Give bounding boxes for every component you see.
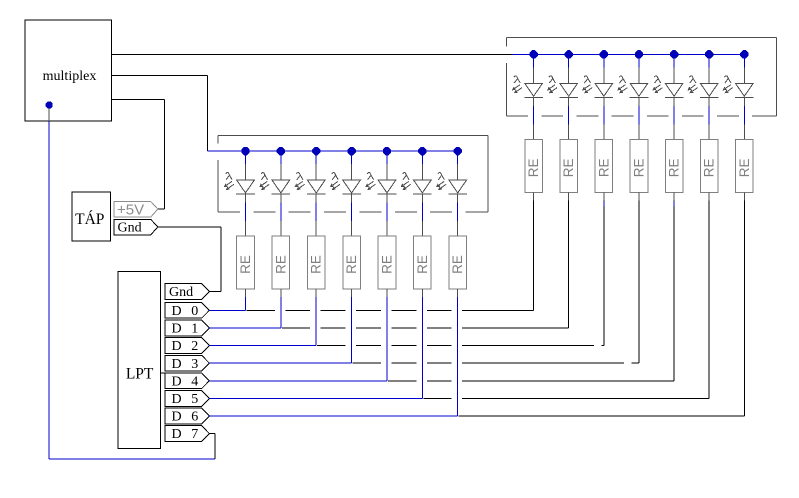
LED D2.6 anode lead xyxy=(743,54,745,67)
LED D2.0 cathode lead xyxy=(533,97,535,106)
svg-text:7: 7 xyxy=(191,427,198,442)
LED D2.5 emission arrows xyxy=(688,85,695,90)
junction node bank2 col1 xyxy=(565,50,573,58)
svg-text:D: D xyxy=(172,410,182,425)
wire multiplex pin to D7 net (vertical blue) xyxy=(48,121,50,459)
LED D2.5 cathode lead xyxy=(708,97,710,106)
LED D1.4 anode lead xyxy=(386,151,388,164)
wire D1 black continuation to bank2 xyxy=(282,327,310,329)
wire D4 blue segment flag to bank1 xyxy=(209,380,387,382)
wire D6 bank1 riser (blue) xyxy=(457,297,459,416)
svg-text:D: D xyxy=(172,357,182,372)
LED D1.2 anode lead xyxy=(315,151,317,164)
wire D1 bank1 riser (blue) xyxy=(280,297,282,328)
LED D1.2 lambda mark xyxy=(296,173,303,180)
svg-text:RE: RE xyxy=(273,255,288,274)
LED D1.5 cathode lead xyxy=(421,194,423,203)
wire D6 blue segment flag to bank1 xyxy=(209,415,457,417)
D 1 flag (LPT) xyxy=(165,320,209,336)
svg-text:3: 3 xyxy=(191,357,198,372)
LED D2.4 cathode lead xyxy=(673,97,675,106)
wire D1 blue segment flag to bank1 xyxy=(209,327,280,329)
LED D1.0 lambda mark xyxy=(226,173,233,180)
svg-text:2: 2 xyxy=(191,339,198,354)
resistor RE (bank 2) xyxy=(665,139,683,192)
LED D1.3 symbol xyxy=(343,180,361,193)
LED D1.1 symbol xyxy=(272,180,290,193)
wire D3 bank2 riser xyxy=(638,201,640,363)
wire multiplex out2 horizontal xyxy=(111,74,207,76)
LED D2.2 emission arrows xyxy=(583,85,590,90)
resistor RE (bank 2) xyxy=(560,139,578,192)
wire multiplex out3 horizontal xyxy=(111,98,164,100)
wire D4 bank2 riser xyxy=(673,201,675,381)
junction node bank1 col5 xyxy=(418,147,426,155)
LED D2.6 lambda mark xyxy=(725,76,732,83)
wire D2 bank1 riser (blue) xyxy=(315,297,317,346)
LED D2.4 lambda mark xyxy=(654,76,661,83)
LED D2.6 symbol xyxy=(736,83,754,96)
junction node bank2 col6 xyxy=(740,50,748,58)
svg-text:RE: RE xyxy=(344,255,359,274)
LED D2.4 emission arrows xyxy=(653,85,660,90)
svg-text:+5V: +5V xyxy=(117,202,144,219)
svg-text:RE: RE xyxy=(561,158,576,177)
LED D2.3 anode lead xyxy=(638,54,640,67)
junction node bank1 col6 xyxy=(454,147,462,155)
svg-text:multiplex: multiplex xyxy=(43,69,97,84)
resistor RE (bank 1) xyxy=(378,236,396,289)
svg-text:D: D xyxy=(172,427,182,442)
LED D1.4 symbol xyxy=(378,180,396,193)
LED D2.2 lambda mark xyxy=(584,76,591,83)
D 5 flag (LPT) xyxy=(165,391,209,407)
LED D2.1 lambda mark xyxy=(549,76,556,83)
resistor RE (bank 2) xyxy=(595,139,613,192)
D 3 flag (LPT) xyxy=(165,355,209,371)
wire D3 blue segment flag to bank1 xyxy=(209,362,351,364)
LED D1.3 lambda mark xyxy=(332,173,339,180)
LED D1.2 cathode lead xyxy=(315,194,317,203)
junction node bank2 col0 xyxy=(529,50,537,58)
resistor RE (bank 1) xyxy=(343,236,361,289)
svg-text:RE: RE xyxy=(238,255,253,274)
resistor RE (bank 2) xyxy=(700,139,718,192)
svg-text:TÁP: TÁP xyxy=(75,211,104,228)
LED D1.6 cathode lead xyxy=(457,194,459,203)
resistor RE (bank 1) xyxy=(414,236,432,289)
wire bottom horizontal D7 net xyxy=(49,458,215,460)
svg-text:5: 5 xyxy=(191,392,198,407)
wire D0 blue segment flag to bank1 xyxy=(209,309,245,311)
wire multiplex pin lead xyxy=(48,108,50,121)
Gnd flag label (TAP) xyxy=(114,219,158,235)
LED D2.6 emission arrows xyxy=(723,85,730,90)
LED bank 2 frame xyxy=(506,37,776,39)
LED D1.6 anode lead xyxy=(457,151,459,164)
LED D1.0 cathode lead xyxy=(245,194,247,203)
wire Gnd TAP to LPT Gnd xyxy=(158,226,221,228)
wire D5 bank2 riser xyxy=(708,201,710,399)
resistor RE (bank 2) xyxy=(630,139,648,192)
D 4 flag (LPT) xyxy=(165,373,209,389)
LED D1.5 emission arrows xyxy=(401,181,408,186)
LED D2.5 anode lead xyxy=(708,54,710,67)
LED D2.1 emission arrows xyxy=(548,85,555,90)
LED D1.4 lambda mark xyxy=(367,173,374,180)
wire D5 blue segment flag to bank1 xyxy=(209,397,422,399)
junction node bank2 col3 xyxy=(635,50,643,58)
LED D1.4 cathode lead xyxy=(386,194,388,203)
resistor RE (bank 1) xyxy=(272,236,290,289)
bank2 bus wire (blue) xyxy=(513,53,745,55)
LED D1.3 cathode lead xyxy=(351,194,353,203)
LED D2.4 anode lead xyxy=(673,54,675,67)
LED D2.3 cathode lead xyxy=(638,97,640,106)
wire D0 black continuation to bank2 xyxy=(247,309,275,311)
LED D2.0 lambda mark xyxy=(514,76,521,83)
wire D5 black continuation to bank2 xyxy=(423,397,451,399)
svg-text:0: 0 xyxy=(191,304,198,319)
junction node bank2 col5 xyxy=(705,50,713,58)
D 0 flag (LPT) xyxy=(165,302,209,318)
LED D1.3 emission arrows xyxy=(331,181,338,186)
svg-text:RE: RE xyxy=(631,158,646,177)
LED D2.6 cathode lead xyxy=(743,97,745,106)
svg-text:D: D xyxy=(172,304,182,319)
svg-text:D: D xyxy=(172,322,182,337)
svg-text:Gnd: Gnd xyxy=(169,285,193,300)
resistor RE (bank 2) xyxy=(525,139,543,192)
LED D2.2 symbol xyxy=(595,83,613,96)
wire D1 bank2 riser xyxy=(568,201,570,328)
LED D2.5 symbol xyxy=(700,83,718,96)
svg-text:Gnd: Gnd xyxy=(118,220,142,235)
svg-text:RE: RE xyxy=(737,158,752,177)
LED D1.1 emission arrows xyxy=(260,181,267,186)
multiplex output pin node (blue dot) xyxy=(46,102,53,109)
svg-text:RE: RE xyxy=(526,158,541,177)
LED D1.6 symbol xyxy=(449,180,467,193)
wire multiplex out2 drop to bank1 bus xyxy=(207,75,209,151)
LED D2.1 symbol xyxy=(560,83,578,96)
junction node bank1 col4 xyxy=(383,147,391,155)
svg-text:RE: RE xyxy=(309,255,324,274)
LED D1.2 emission arrows xyxy=(295,181,302,186)
junction node bank1 col2 xyxy=(312,147,320,155)
wire stub between D3 and D4 flags xyxy=(161,372,192,374)
wire D5 bank1 riser (blue) xyxy=(421,297,423,399)
svg-text:RE: RE xyxy=(379,255,394,274)
bank1 bus wire (blue) xyxy=(208,150,458,152)
svg-text:1: 1 xyxy=(191,322,198,337)
junction node bank1 col1 xyxy=(277,147,285,155)
wire multiplex out3 drop to +5V xyxy=(163,99,165,209)
wire D3 bank1 riser (blue) xyxy=(351,297,353,363)
+5V flag label xyxy=(114,201,158,217)
LED bank 1 frame xyxy=(218,135,488,137)
wire D6 bank2 riser xyxy=(743,201,745,416)
LED D1.1 lambda mark xyxy=(261,173,268,180)
wire D0 bank1 riser (blue) xyxy=(245,297,247,311)
resistor RE (bank 1) xyxy=(237,236,255,289)
LED D2.1 cathode lead xyxy=(568,97,570,106)
LED D1.3 anode lead xyxy=(351,151,353,164)
LED D1.5 symbol xyxy=(414,180,432,193)
LED D2.0 symbol xyxy=(525,83,543,96)
wire multiplex out1 to bank2 bus xyxy=(111,53,512,55)
wire D7 riser xyxy=(214,434,216,460)
svg-text:D: D xyxy=(172,374,182,389)
LPT port box xyxy=(118,271,161,448)
LED D1.6 lambda mark xyxy=(438,173,445,180)
wire D3 black continuation to bank2 xyxy=(353,362,381,364)
TAP power supply box xyxy=(72,192,111,241)
LED D1.0 emission arrows xyxy=(225,181,232,186)
junction node bank1 col0 xyxy=(241,147,249,155)
junction node bank2 col2 xyxy=(600,50,608,58)
Gnd flag (LPT) xyxy=(165,284,209,300)
D 7 flag (LPT) xyxy=(165,426,209,442)
resistor RE (bank 1) xyxy=(307,236,325,289)
LED D2.3 symbol xyxy=(630,83,648,96)
junction node bank2 col4 xyxy=(670,50,678,58)
resistor RE (bank 1) xyxy=(449,236,467,289)
LED D2.3 lambda mark xyxy=(619,76,626,83)
LED D2.0 emission arrows xyxy=(513,85,520,90)
LED D1.0 anode lead xyxy=(245,151,247,164)
svg-text:RE: RE xyxy=(450,255,465,274)
LED D1.5 anode lead xyxy=(421,151,423,164)
LED D1.4 emission arrows xyxy=(366,181,373,186)
wire D4 black continuation to bank2 xyxy=(388,380,416,382)
wire D2 blue segment flag to bank1 xyxy=(209,345,316,347)
LED D2.2 anode lead xyxy=(603,54,605,67)
LED D1.1 anode lead xyxy=(280,151,282,164)
wire D6 black continuation to bank2 xyxy=(459,415,745,417)
svg-text:RE: RE xyxy=(667,158,682,177)
resistor RE (bank 2) xyxy=(736,139,754,192)
svg-text:RE: RE xyxy=(415,255,430,274)
LED D1.2 symbol xyxy=(307,180,325,193)
multiplex box U1 xyxy=(25,20,111,121)
LED D2.2 cathode lead xyxy=(603,97,605,106)
svg-text:LPT: LPT xyxy=(126,365,154,382)
svg-text:D: D xyxy=(172,392,182,407)
LED D2.1 anode lead xyxy=(568,54,570,67)
LED D2.5 lambda mark xyxy=(689,76,696,83)
D 2 flag (LPT) xyxy=(165,338,209,354)
LED D1.5 lambda mark xyxy=(403,173,410,180)
LED D1.6 emission arrows xyxy=(437,181,444,186)
junction node bank1 col3 xyxy=(347,147,355,155)
LED D1.1 cathode lead xyxy=(280,194,282,203)
wire D0 bank2 riser xyxy=(533,201,535,311)
LED D2.3 emission arrows xyxy=(618,85,625,90)
LED D2.0 anode lead xyxy=(533,54,535,67)
svg-text:4: 4 xyxy=(191,374,198,389)
LED D2.4 symbol xyxy=(665,83,683,96)
D 6 flag (LPT) xyxy=(165,408,209,424)
svg-text:RE: RE xyxy=(702,158,717,177)
LED D1.0 symbol xyxy=(237,180,255,193)
wire D2 black continuation to bank2 xyxy=(317,345,345,347)
wire D4 bank1 riser (blue) xyxy=(386,297,388,381)
wire D2 bank2 riser xyxy=(603,201,605,346)
svg-text:RE: RE xyxy=(596,158,611,177)
svg-text:D: D xyxy=(172,339,182,354)
svg-text:6: 6 xyxy=(191,410,198,425)
